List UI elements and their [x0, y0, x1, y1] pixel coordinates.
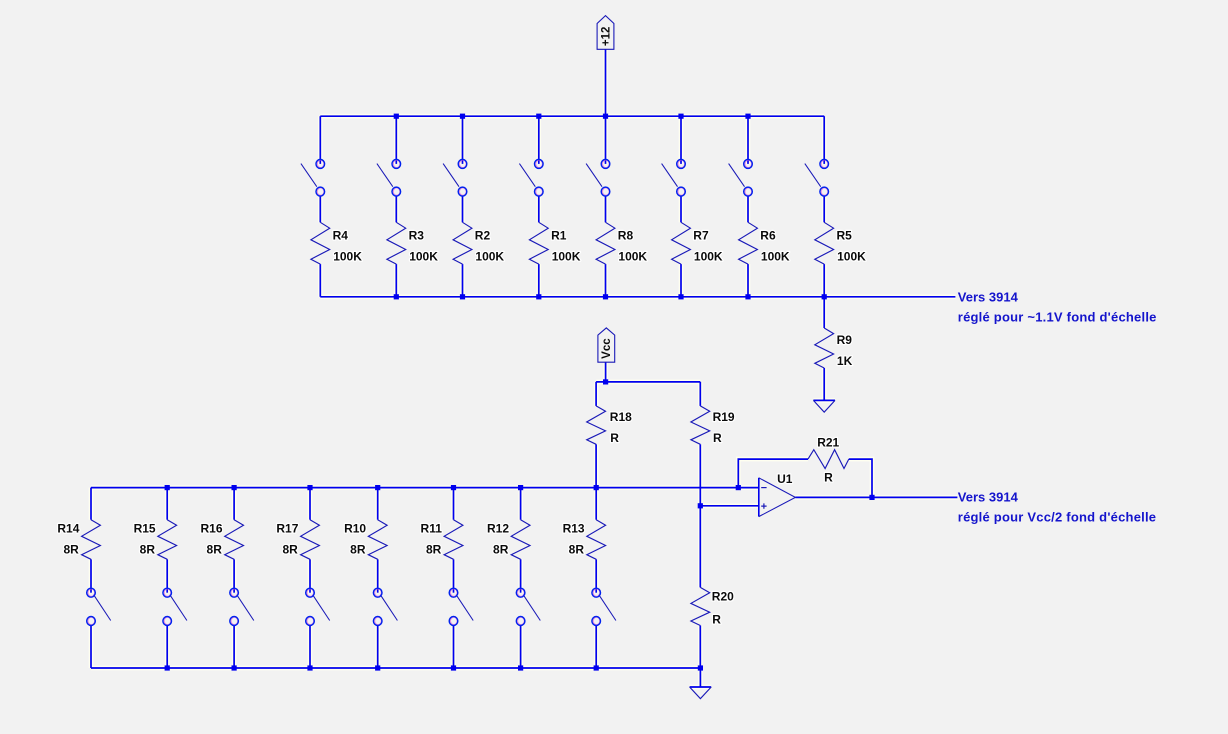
svg-text:R17: R17	[276, 521, 298, 535]
wire	[319, 116, 321, 164]
resistor R21 R (feedback)	[808, 450, 849, 469]
wire	[747, 196, 749, 222]
wire R18 bottom	[595, 444, 597, 487]
svg-text:1K: 1K	[837, 354, 853, 368]
wire feedback up/left	[738, 459, 808, 488]
op-amp U1	[758, 478, 760, 517]
switch (column R7)	[662, 164, 678, 187]
wire bus to 3914 (top)	[320, 296, 955, 298]
wire	[309, 626, 311, 668]
svg-text:Vcc: Vcc	[601, 338, 613, 359]
junction feedback tap	[736, 485, 741, 490]
junction + input	[698, 503, 703, 508]
wire + input	[700, 505, 759, 507]
svg-text:R7: R7	[693, 229, 709, 243]
wire output to 3914	[795, 496, 957, 498]
junction mid bus	[307, 485, 312, 490]
resistor R8 100K	[596, 222, 615, 264]
wire	[747, 116, 749, 164]
svg-text:100K: 100K	[618, 249, 647, 263]
wire mid bus (summing node)	[91, 487, 759, 489]
wire	[453, 488, 455, 520]
svg-text:R1: R1	[551, 229, 567, 243]
wire	[90, 559, 92, 592]
resistor R20 R	[691, 587, 710, 625]
wire	[233, 626, 235, 668]
svg-text:8R: 8R	[282, 543, 298, 557]
wire	[395, 264, 397, 297]
junction top bus	[678, 114, 683, 119]
svg-text:R2: R2	[475, 229, 491, 243]
junction mid bus	[165, 485, 170, 490]
resistor R5 100K	[815, 222, 834, 264]
resistor R15 8R	[158, 520, 177, 560]
switch (column R1)	[519, 164, 535, 187]
switch (column R13)	[599, 595, 616, 621]
resistor R7 100K	[672, 222, 691, 264]
junction bottom bus	[375, 665, 380, 670]
wire	[166, 488, 168, 520]
svg-text:Vers 3914: Vers 3914	[958, 290, 1019, 305]
wire	[395, 196, 397, 222]
svg-text:réglé pour Vcc/2 fond d'échell: réglé pour Vcc/2 fond d'échelle	[958, 510, 1156, 525]
ground (below R9)	[813, 399, 835, 401]
junction ground node	[698, 665, 703, 670]
svg-text:R15: R15	[134, 521, 156, 535]
switch (column R10)	[380, 595, 397, 621]
svg-text:100K: 100K	[475, 249, 504, 263]
wire R20 bottom	[699, 626, 701, 669]
svg-text:R8: R8	[618, 229, 634, 243]
svg-text:100K: 100K	[552, 249, 581, 263]
switch (column R11)	[456, 595, 473, 621]
switch (column R17)	[313, 595, 330, 621]
wire	[319, 196, 321, 222]
wire	[823, 196, 825, 222]
wire	[605, 116, 607, 164]
junction bottom bus	[165, 665, 170, 670]
wire	[166, 559, 168, 592]
junction bottom bus	[822, 294, 827, 299]
resistor R3 100K	[387, 222, 406, 264]
junction top bus	[745, 114, 750, 119]
wire R19 top	[699, 382, 701, 406]
wire	[520, 559, 522, 592]
power flag +12	[597, 16, 614, 50]
resistor R1 100K	[529, 222, 548, 264]
svg-text:100K: 100K	[837, 249, 866, 263]
resistor R4 100K	[311, 222, 330, 264]
svg-text:R: R	[824, 470, 833, 484]
wire	[605, 264, 607, 297]
svg-text:R9: R9	[837, 333, 853, 347]
wire	[823, 264, 825, 297]
ground (bottom)	[690, 686, 712, 688]
wire	[680, 196, 682, 222]
svg-text:R19: R19	[713, 410, 735, 424]
resistor R2 100K	[453, 222, 472, 264]
wire	[595, 488, 597, 520]
junction mid bus	[375, 485, 380, 490]
wire	[520, 626, 522, 668]
junction bottom bus	[451, 665, 456, 670]
junction output/feedback	[869, 495, 874, 500]
wire	[233, 559, 235, 592]
svg-text:+12: +12	[600, 27, 612, 47]
switch (column R8)	[586, 164, 602, 187]
resistor R12 8R	[511, 520, 530, 560]
resistor R17 8R	[301, 520, 320, 560]
switch (column R12)	[523, 595, 540, 621]
wire	[319, 264, 321, 297]
resistor R13 8R	[587, 520, 606, 560]
junction Vcc node	[603, 379, 608, 384]
svg-text:R18: R18	[610, 410, 632, 424]
junction top bus	[394, 114, 399, 119]
resistor R19 R	[691, 406, 710, 444]
junction bottom bus	[678, 294, 683, 299]
wire	[680, 264, 682, 297]
svg-text:R10: R10	[344, 521, 366, 535]
wire R9 top	[823, 297, 825, 328]
wire	[453, 626, 455, 668]
wire	[595, 559, 597, 592]
junction bottom bus	[518, 665, 523, 670]
wire	[747, 264, 749, 297]
svg-text:8R: 8R	[140, 543, 156, 557]
resistor R14 8R	[82, 520, 101, 560]
svg-text:8R: 8R	[63, 543, 79, 557]
svg-text:R16: R16	[200, 521, 222, 535]
svg-text:8R: 8R	[350, 543, 366, 557]
wire	[462, 196, 464, 222]
wire R9 to ground	[823, 368, 825, 400]
wire	[395, 116, 397, 164]
svg-text:R14: R14	[57, 521, 79, 535]
svg-text:R: R	[712, 613, 721, 627]
wire	[538, 264, 540, 297]
switch (column R5)	[805, 164, 821, 187]
svg-text:R: R	[713, 431, 722, 445]
svg-text:R6: R6	[760, 229, 776, 243]
svg-text:R20: R20	[712, 589, 734, 603]
resistor R18 R	[587, 406, 606, 444]
resistor R6 100K	[739, 222, 758, 264]
wire	[462, 116, 464, 164]
switch (column R3)	[377, 164, 393, 187]
junction bottom bus	[460, 294, 465, 299]
wire +12 to top bus	[605, 49, 607, 116]
junction top bus	[536, 114, 541, 119]
svg-text:R12: R12	[487, 521, 509, 535]
wire	[538, 196, 540, 222]
switch (column R6)	[729, 164, 745, 187]
power flag Vcc	[598, 328, 615, 362]
wire	[538, 116, 540, 164]
wire	[453, 559, 455, 592]
switch (column R15)	[170, 595, 187, 621]
svg-text:réglé pour ~1.1V fond d'échell: réglé pour ~1.1V fond d'échelle	[958, 310, 1157, 325]
wire	[233, 488, 235, 520]
resistor R11 8R	[444, 520, 463, 560]
junction bottom bus	[594, 665, 599, 670]
junction mid bus	[518, 485, 523, 490]
wire	[377, 559, 379, 592]
wire R20 top	[699, 506, 701, 588]
wire	[377, 488, 379, 520]
wire	[90, 488, 92, 520]
wire	[377, 626, 379, 668]
svg-text:100K: 100K	[409, 249, 438, 263]
switch (column R4)	[301, 164, 317, 187]
wire	[90, 626, 92, 668]
switch (column R14)	[94, 595, 111, 621]
wire	[595, 626, 597, 668]
svg-text:R: R	[610, 431, 619, 445]
junction bottom bus	[745, 294, 750, 299]
switch (column R16)	[237, 595, 254, 621]
svg-text:R11: R11	[421, 521, 443, 535]
svg-text:100K: 100K	[761, 249, 790, 263]
svg-text:R21: R21	[817, 435, 839, 449]
resistor R16 8R	[225, 520, 244, 560]
junction bottom bus	[307, 665, 312, 670]
svg-text:8R: 8R	[426, 543, 442, 557]
svg-text:100K: 100K	[333, 249, 362, 263]
wire feedback right/down	[849, 459, 872, 497]
wire ground stem	[699, 668, 701, 687]
junction top bus	[603, 114, 608, 119]
junction bottom bus	[536, 294, 541, 299]
svg-text:8R: 8R	[569, 543, 585, 557]
svg-text:R4: R4	[333, 229, 349, 243]
junction mid bus	[232, 485, 237, 490]
resistor R10 8R	[368, 520, 387, 560]
wire	[462, 264, 464, 297]
wire Vcc down	[605, 362, 607, 382]
wire bottom bus	[91, 667, 700, 669]
wire R18 top	[595, 382, 597, 406]
wire Vcc node horizontal	[596, 381, 700, 383]
wire	[680, 116, 682, 164]
switch (column R2)	[443, 164, 459, 187]
wire halo underlay (glow around nets)	[91, 49, 957, 687]
junction bottom bus	[394, 294, 399, 299]
svg-text:R5: R5	[837, 229, 853, 243]
wire	[520, 488, 522, 520]
svg-text:100K: 100K	[694, 249, 723, 263]
svg-text:R3: R3	[409, 229, 425, 243]
wire	[166, 626, 168, 668]
wire	[823, 116, 825, 164]
wire	[309, 559, 311, 592]
svg-text:Vers 3914: Vers 3914	[958, 490, 1019, 505]
wire R19 bottom to + input node	[699, 444, 701, 506]
resistor R9 1K	[815, 328, 834, 368]
junction top bus	[460, 114, 465, 119]
junction bottom bus	[603, 294, 608, 299]
wire	[605, 196, 607, 222]
svg-text:8R: 8R	[493, 543, 509, 557]
junction mid bus	[594, 485, 599, 490]
wire	[309, 488, 311, 520]
junction mid bus	[451, 485, 456, 490]
svg-text:R13: R13	[563, 521, 585, 535]
svg-text:U1: U1	[777, 472, 793, 486]
wire top bus	[320, 115, 824, 117]
junction bottom bus	[232, 665, 237, 670]
svg-text:8R: 8R	[207, 543, 223, 557]
